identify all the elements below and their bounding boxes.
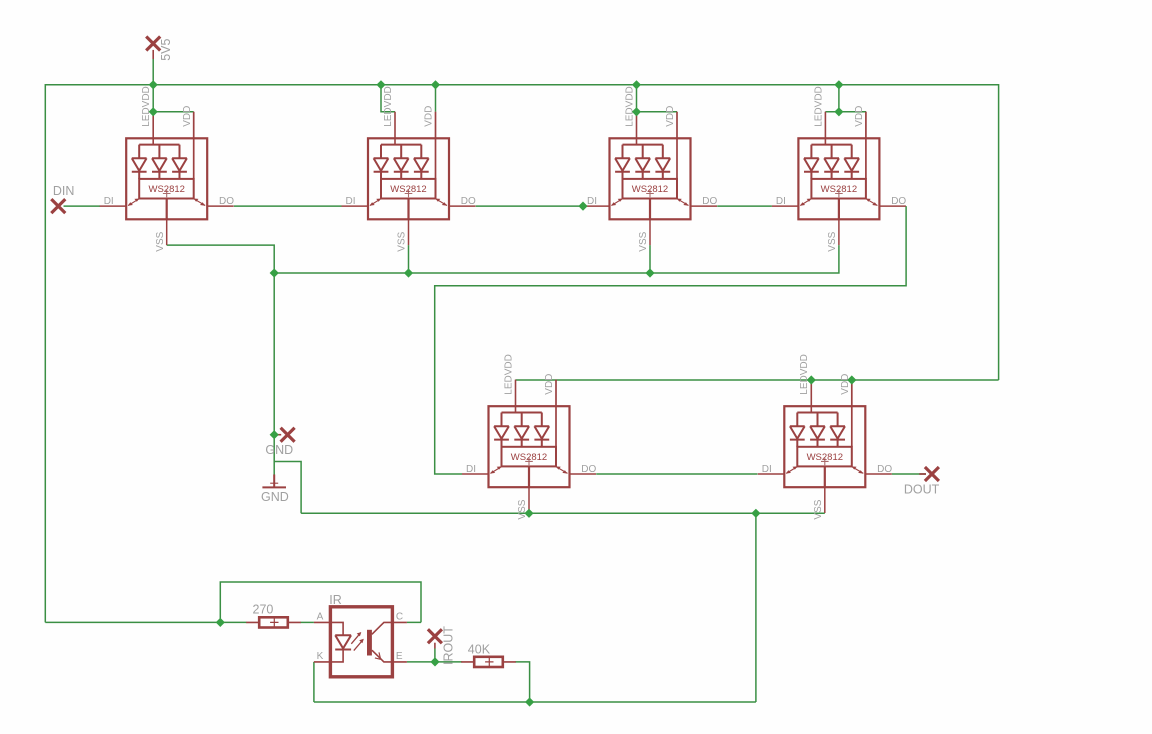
wire U2 DO - U3 DI [476,205,583,207]
wire U6 DO - DOUT [892,473,926,475]
svg-text:C: C [396,611,403,622]
wire GND to row2 VSS bus [274,462,301,514]
supply flag GND [265,428,294,457]
supply flag 5V5 [146,37,173,61]
supply flag DIN [51,184,74,213]
svg-text:40K: 40K [468,642,491,656]
IC U5 WS2812 [462,354,597,519]
wire VSS down to IR bottom rail [314,513,756,702]
wire left rail to R270 [45,621,246,623]
svg-text:GND: GND [261,490,289,504]
IC U6 WS2812 [758,354,893,519]
optocoupler IR [314,593,407,677]
wire 40K to bottom rail [515,662,529,702]
IC U4 WS2812 [772,86,907,251]
wire U1 DO - U2 DI [234,205,342,207]
svg-text:E: E [396,651,403,662]
svg-text:5V5: 5V5 [159,39,173,61]
svg-text:DIN: DIN [53,184,75,198]
wire U2 VDD drop [435,85,437,112]
wire DIN to U1 DI [64,205,101,207]
wire 5V row2 feed rail [516,379,999,381]
resistor R1 270 [246,602,301,627]
svg-text:A: A [317,611,324,622]
wire VSS bus row1 [274,245,839,273]
supply flag DOUT [904,467,940,496]
svg-text:DOUT: DOUT [904,482,940,496]
IC U2 WS2812 [342,86,477,251]
wire U3 drop [637,85,678,112]
wire U5 DO - U6 DI [596,473,757,475]
ground symbol GND [261,475,289,504]
wire branch up over IR to C pin [220,582,421,622]
wire IROUT stub [434,649,436,662]
wire E pin to 40K [407,661,462,663]
wire 5V main rails (left, top, right) [45,85,998,623]
resistor R2 40K [461,642,516,667]
svg-text:GND: GND [265,443,293,457]
wire U2 VSS stub [408,245,410,273]
wire U5 VSS stub [528,512,530,515]
svg-text:K: K [317,651,324,662]
IC U1 WS2812 [100,86,235,251]
wire U1 VSS to GND column [167,245,275,461]
wire K riser [313,662,315,702]
wire 5V5 drop to U1 [153,59,194,112]
wire GND symbol stub [273,462,275,476]
IC U3 WS2812 [583,86,718,251]
wire U3 DO - U4 DI [717,205,772,207]
wire U4 DO - U5 DI [435,206,906,474]
wire U4 drop [825,85,866,112]
wire R270 to A pin [300,621,314,623]
wire U2 LEDVDD drop [381,85,395,112]
svg-text:IR: IR [329,593,342,607]
supply flag IROUT [428,626,456,665]
svg-text:270: 270 [253,602,274,616]
svg-text:IROUT: IROUT [442,626,456,665]
wire VSS bus row2 [301,512,825,514]
wire U3 VSS stub [649,245,651,273]
